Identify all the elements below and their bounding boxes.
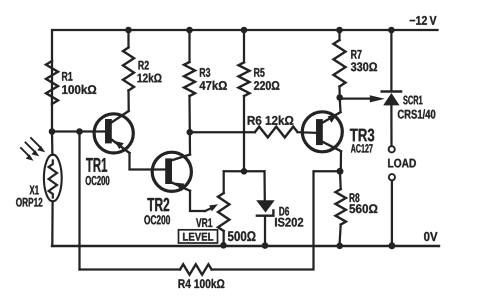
resistor R1 (46, 61, 58, 104)
label LEVEL box (179, 230, 218, 243)
label SCR1 (403, 96, 422, 105)
resistor R5 (239, 30, 250, 171)
label TR2 (147, 198, 169, 211)
wire R4 row right up to TR3 collector node (212, 171, 340, 269)
value R7 330Ω (351, 62, 377, 71)
label R4 100kΩ (179, 279, 225, 288)
resistor R4 (180, 264, 212, 274)
label TR3 type AC127 (351, 144, 373, 153)
resistor R3 (184, 30, 195, 132)
resistor R8 (336, 171, 346, 245)
label D6 (279, 207, 289, 216)
value R8 560Ω (349, 204, 377, 213)
node VR1 bottom rail junction (220, 242, 227, 249)
thyristor SCR1 (382, 30, 401, 146)
node R7 top (336, 27, 343, 34)
light arrow 1 (31, 138, 45, 152)
wire R4 row left (80, 268, 181, 270)
label -12V (410, 16, 437, 25)
wire feedback column down (78, 132, 80, 270)
label R3 (200, 68, 210, 77)
label LOAD (388, 159, 416, 168)
value R5 220Ω (254, 81, 279, 90)
wire TR3 collector lead (340, 151, 342, 171)
wire bottom 0V rail (52, 245, 439, 247)
wire X1 bottom lead (51, 201, 54, 246)
label LEVEL (183, 233, 213, 241)
label X1 (30, 186, 39, 195)
wire TR2 emitter to VR1 wiper (190, 191, 205, 211)
wire TR1 base row (52, 130, 106, 132)
light arrow 2 (26, 143, 40, 157)
value VR1 500Ω (228, 231, 256, 241)
resistor R7 (334, 30, 346, 97)
label R5 (254, 68, 264, 77)
label X1 type ORP12 (16, 198, 42, 207)
wire TR1 emitter to TR2 base (130, 153, 167, 170)
node R5/VR1/D6 junction (241, 168, 248, 175)
wire top -12V supply rail (52, 30, 438, 132)
node feedback tap junction (76, 128, 83, 135)
wire SCR1 gate arrow (340, 95, 385, 102)
node R5 top (241, 27, 248, 34)
resistor R6 (190, 127, 317, 138)
node R3/R6/TR2-collector junction (187, 129, 194, 136)
diode D6 (256, 171, 275, 246)
light arrow 3 (21, 148, 34, 161)
resistor R2 (123, 30, 134, 111)
photocell X1 envelope (44, 155, 62, 202)
transistor TR1 (94, 111, 133, 153)
label VR1 (196, 218, 212, 227)
node TR3-collector/R8/feedback junction (337, 168, 344, 175)
terminal LOAD top (389, 146, 395, 152)
photocell X1 element (49, 161, 57, 198)
label TR3 (350, 129, 374, 142)
label D6 type IS202 (275, 218, 303, 227)
transistor TR2 (152, 152, 191, 191)
node R2 top (125, 27, 132, 34)
wire TR2 collector lead (189, 132, 191, 154)
label R6 12kΩ (248, 116, 294, 125)
label R7 (351, 50, 361, 59)
label R8 (350, 193, 360, 202)
label R1 (62, 72, 72, 81)
value R3 47kΩ (200, 81, 227, 90)
node D6 bottom rail junction (262, 242, 269, 249)
node R7/TR3-emitter/gate junction (336, 94, 343, 101)
wire LOAD terminal to 0V rail (391, 181, 393, 246)
label SCR1 type CRS1/40 (398, 109, 436, 118)
node SCR1 anode top (388, 27, 395, 34)
potentiometer VR1 (218, 171, 229, 246)
node LOAD bottom rail junction (388, 242, 395, 249)
label TR1 (86, 158, 107, 172)
wire TR3 emitter lead (339, 98, 342, 113)
terminal LOAD bottom (389, 174, 395, 180)
label TR1 type OC200 (86, 176, 110, 185)
transistor TR3 (302, 112, 342, 152)
label 0V (424, 232, 437, 241)
node R1/X1/TR1-base junction (49, 128, 56, 135)
wire X1 top lead (51, 132, 54, 155)
wiper arrow VR1 (205, 204, 218, 211)
label R2 (139, 61, 149, 70)
label TR2 type OC200 (144, 215, 170, 224)
wire node row VR1 to D6 (224, 170, 265, 172)
node R8 bottom rail junction (336, 243, 343, 250)
value R1 100kΩ (62, 85, 96, 94)
node R3 top (186, 27, 193, 34)
value R2 12kΩ (138, 73, 162, 82)
